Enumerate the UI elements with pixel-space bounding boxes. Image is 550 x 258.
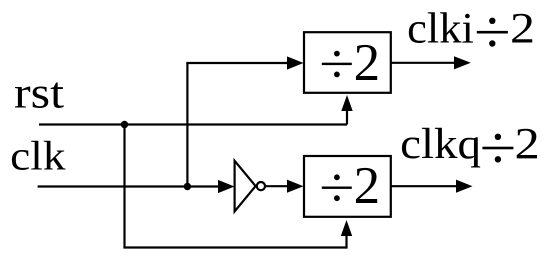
arrowhead into U2 bottom (341, 220, 352, 236)
output label clki divide lower dot (489, 40, 495, 46)
svg-text:2: 2 (354, 34, 381, 92)
arrowhead into U1 bottom (341, 95, 352, 111)
U1 label divide bar (322, 63, 352, 65)
arrowhead into inverter input (218, 180, 235, 193)
wire clk horizontal (38, 185, 221, 187)
U2 label divide bar (322, 187, 352, 189)
wire U1 output (391, 62, 456, 64)
svg-text:clki: clki (407, 6, 474, 53)
inverter triangle (235, 161, 256, 212)
svg-text:rst: rst (14, 69, 64, 118)
output label clkq divide upper dot (495, 134, 501, 140)
wire rst horizontal (39, 123, 347, 125)
svg-text:2: 2 (515, 119, 540, 168)
output label clki divide upper dot (489, 18, 495, 24)
node rst junction (121, 121, 128, 128)
svg-text:2: 2 (354, 157, 381, 215)
svg-text:2: 2 (510, 6, 535, 53)
inverter bubble (257, 182, 265, 190)
wire U2 output (391, 185, 458, 187)
arrowhead into U2 input (287, 180, 304, 193)
output label clkq divide lower dot (495, 156, 501, 162)
divider U1 box (304, 32, 391, 93)
arrowhead U1 output (454, 56, 471, 69)
wire clk top run to U1 (186, 62, 290, 64)
U1 label divide upper dot (334, 51, 340, 57)
U1 label divide lower dot (334, 72, 340, 78)
node clk junction (184, 183, 191, 190)
wire rst bottom run (123, 246, 346, 248)
svg-text:clk: clk (10, 133, 66, 179)
wire rst riser to U2 reset (345, 233, 347, 249)
output label clki divide bar (477, 31, 508, 34)
U2 label divide upper dot (334, 174, 340, 180)
wire inverter output (265, 185, 290, 187)
divider U2 box (304, 156, 391, 217)
output label clkq divide bar (482, 147, 513, 150)
arrowhead U2 output (456, 180, 473, 193)
wire clk up-leg (186, 63, 188, 188)
wire rst down-leg (123, 125, 125, 248)
U2 label divide lower dot (334, 195, 340, 201)
wire rst riser to U1 reset (346, 108, 348, 125)
arrowhead into U1 input (287, 56, 304, 69)
svg-text:clkq: clkq (400, 121, 481, 168)
